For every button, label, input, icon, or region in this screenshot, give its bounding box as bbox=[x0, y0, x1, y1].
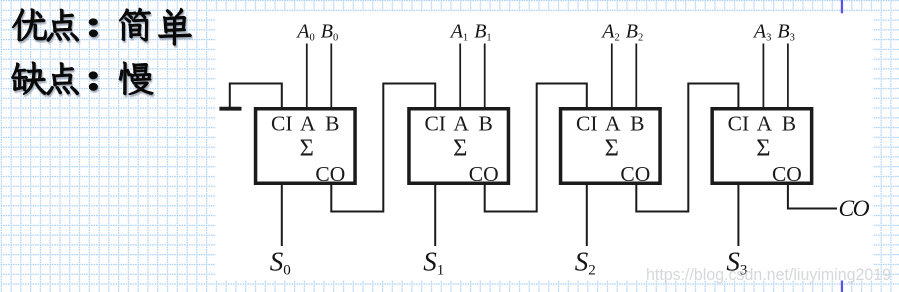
ground bar bbox=[219, 107, 241, 111]
svg-text:Σ: Σ bbox=[756, 135, 770, 162]
full adder U1 box bbox=[256, 109, 355, 184]
full adder U4 box bbox=[712, 109, 812, 184]
wire S3 output bbox=[737, 183, 739, 246]
text char dian bbox=[47, 63, 79, 95]
text char man bbox=[119, 62, 153, 95]
wire A1 input bbox=[459, 44, 461, 110]
text char jian bbox=[119, 8, 150, 41]
svg-text:B: B bbox=[782, 112, 796, 136]
svg-text:CI: CI bbox=[424, 112, 446, 136]
wire B3 input bbox=[787, 44, 789, 110]
svg-text:CO: CO bbox=[315, 162, 345, 186]
svg-text:A: A bbox=[605, 112, 621, 136]
text char que bbox=[12, 62, 47, 95]
wire carry CO of U3 to CI of U4 bbox=[636, 84, 738, 212]
wire final CO output bbox=[788, 183, 837, 209]
wire S1 output bbox=[434, 183, 436, 246]
svg-text:CI: CI bbox=[271, 112, 293, 136]
blue cursor artifact top bbox=[841, 0, 843, 13]
wire B1 input bbox=[484, 44, 486, 110]
svg-text:https://blog.csdn.net/liuyimin: https://blog.csdn.net/liuyiming2019 bbox=[646, 266, 891, 284]
svg-text:CI: CI bbox=[728, 112, 750, 136]
svg-text:CI: CI bbox=[576, 112, 598, 136]
colon 2 bbox=[89, 72, 97, 79]
svg-text:B: B bbox=[325, 112, 339, 136]
svg-text:A: A bbox=[300, 112, 316, 136]
wire S2 output bbox=[586, 183, 588, 246]
wire S0 output bbox=[281, 183, 283, 246]
wire carry CO of U1 to CI of U2 bbox=[331, 84, 435, 212]
svg-text:CO: CO bbox=[772, 162, 802, 186]
svg-text:A: A bbox=[757, 112, 773, 136]
svg-text:CO: CO bbox=[469, 162, 499, 186]
blue cursor artifact bottom bbox=[841, 281, 843, 292]
colon 1 bbox=[89, 19, 97, 25]
white canvas area bbox=[215, 12, 874, 280]
svg-text:B: B bbox=[630, 112, 644, 136]
wire A0 input bbox=[306, 44, 308, 110]
svg-text:B: B bbox=[479, 112, 493, 136]
full adder U3 box bbox=[561, 109, 661, 184]
svg-text:A: A bbox=[453, 112, 469, 136]
svg-text:CO: CO bbox=[620, 162, 650, 186]
svg-text:Σ: Σ bbox=[300, 135, 314, 162]
wire B2 input bbox=[635, 44, 637, 110]
text char you bbox=[13, 9, 47, 41]
wire ground to CI of U1 bbox=[230, 84, 282, 110]
text char dian bbox=[47, 9, 79, 41]
svg-text:Σ: Σ bbox=[605, 135, 619, 162]
wire A3 input bbox=[762, 44, 764, 110]
wire A2 input bbox=[611, 44, 613, 110]
svg-text:Σ: Σ bbox=[453, 135, 467, 162]
text char dan bbox=[159, 8, 192, 45]
wire B0 input bbox=[330, 44, 332, 110]
wire carry CO of U2 to CI of U3 bbox=[485, 84, 587, 212]
svg-text:CO: CO bbox=[839, 196, 870, 222]
full adder U2 box bbox=[409, 109, 509, 184]
